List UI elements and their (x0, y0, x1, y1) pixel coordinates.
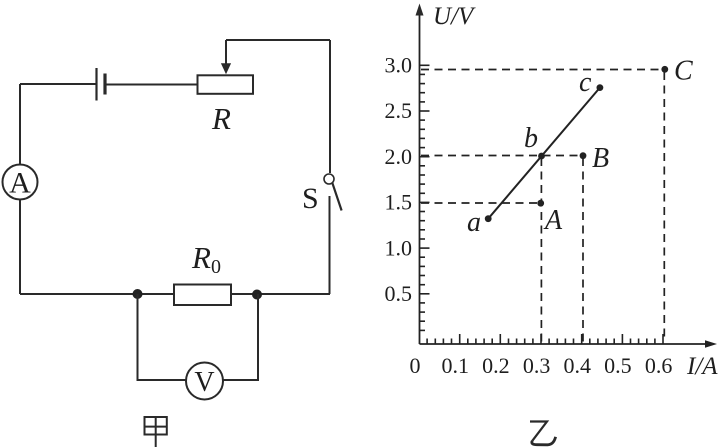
svg-text:C: C (674, 56, 693, 87)
x labels (441, 353, 672, 378)
rheostat R body (198, 75, 254, 94)
dashed line U=2.9 to C (421, 69, 661, 71)
wire voltmeter left branch (138, 294, 187, 380)
y labels (385, 53, 413, 307)
y-axis (419, 8, 421, 344)
svg-text:0.5: 0.5 (385, 281, 413, 306)
svg-text:0.6: 0.6 (645, 353, 673, 378)
wire top-left horizontal (20, 83, 96, 85)
svg-text:A: A (9, 167, 31, 200)
point A (537, 200, 544, 207)
switch S (324, 174, 342, 211)
point b (538, 153, 545, 160)
wire left vertical lower (19, 200, 21, 295)
svg-text:R0: R0 (191, 240, 221, 278)
svg-text:0.1: 0.1 (441, 353, 469, 378)
y-axis ticks (420, 65, 430, 330)
point C (661, 66, 668, 73)
dashed line I=0.3 (540, 158, 542, 342)
point B (580, 152, 587, 159)
svg-text:b: b (524, 123, 538, 154)
voltmeter V (186, 363, 223, 400)
node J2 (252, 290, 262, 300)
x-axis ticks (427, 334, 663, 344)
svg-text:A: A (543, 205, 563, 236)
resistor R0 body (174, 285, 231, 306)
svg-text:1.5: 1.5 (385, 190, 413, 215)
data line a-c (488, 88, 600, 219)
wire right vertical lower (329, 196, 331, 294)
svg-text:0.5: 0.5 (604, 353, 632, 378)
wire right vertical upper (329, 40, 331, 173)
wire left vertical upper (19, 84, 21, 165)
battery (97, 68, 106, 101)
svg-text:0.3: 0.3 (523, 353, 551, 378)
svg-text:2.5: 2.5 (385, 98, 413, 123)
x-axis (420, 343, 711, 345)
wire voltmeter right branch (223, 294, 258, 380)
wire bottom horizontal (20, 293, 330, 295)
ammeter A (3, 165, 38, 200)
svg-text:R: R (211, 101, 231, 136)
dashed line U=1.5 to A (421, 202, 537, 204)
svg-text:2.0: 2.0 (385, 144, 413, 169)
wire battery to rheostat (105, 84, 198, 86)
svg-text:B: B (592, 143, 609, 174)
svg-text:3.0: 3.0 (385, 53, 413, 78)
svg-text:0.4: 0.4 (563, 353, 591, 378)
point c (597, 84, 604, 91)
dashed line I=0.6 (663, 72, 665, 342)
svg-text:0.2: 0.2 (482, 353, 510, 378)
label jia (caption) (145, 417, 167, 447)
wire top horizontal (226, 39, 330, 41)
dashed line I=0.4 (582, 158, 584, 342)
point a (485, 215, 492, 222)
svg-text:S: S (302, 182, 319, 215)
dashed line U=2.0 to B (421, 155, 580, 157)
svg-text:1.0: 1.0 (385, 235, 413, 260)
rheostat R slider arrow (221, 40, 231, 74)
svg-text:I/A: I/A (686, 353, 718, 380)
svg-text:V: V (194, 367, 214, 398)
label yi (caption) (530, 422, 556, 445)
svg-text:c: c (579, 67, 592, 98)
svg-text:a: a (467, 207, 481, 238)
node J1 (133, 289, 143, 299)
svg-text:0: 0 (410, 353, 421, 378)
svg-text:U/V: U/V (433, 3, 476, 30)
